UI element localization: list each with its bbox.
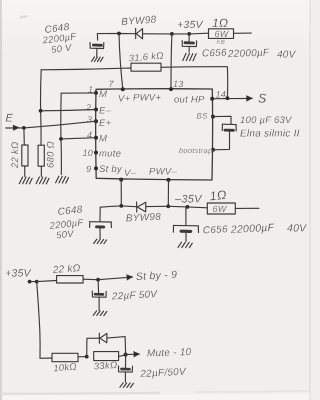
wire BS to C bootstrap [213,116,231,124]
pin 13 label [173,79,184,89]
diode D2 BYW98 (bottom) [137,202,169,212]
pin 4 number [87,130,92,140]
ground below R3 [19,177,32,184]
value C656 bottom text [203,222,308,237]
wire mute diode branch right [124,337,127,355]
svg-text:1Ω: 1Ω [212,16,228,30]
diode D3 mute (speedup) [99,333,125,343]
ground below C656 bottom [178,242,192,248]
pin PWV- dot bottom [167,178,171,182]
wire R 1ohm to supply [234,32,252,34]
svg-text:50V: 50V [56,229,76,242]
label E- pin2 [99,106,112,117]
pin 13 dot [169,87,173,91]
wire R4 to ground [40,166,42,176]
svg-text:+35V: +35V [177,19,204,31]
capacitor C656 (bottom, 22000uF 40V) [173,207,198,242]
ground below C648 bottom [94,239,107,244]
value 31.6k [128,50,164,64]
wire feedback right (R2 to output node) [161,67,228,99]
node C656 junction [187,32,191,36]
capacitor C648 (top, 2200uF 50V) [90,42,104,56]
svg-text:13: 13 [173,79,184,89]
pin 1 dot [94,91,98,95]
value BYW98 top [121,15,157,28]
label St-by pin9 [99,164,123,175]
svg-text:E: E [6,113,14,125]
capacitor C bootstrap 100uF 63V [213,124,236,150]
capacitor C stby 22uF 50V [92,280,106,311]
paper bottom edge shading [0,391,311,394]
pin 3 dot [94,119,98,123]
svg-text:M: M [99,134,107,145]
node +35V junction [170,32,174,36]
ground below R4 [36,177,49,184]
value C656 22000uF 40V top [202,48,297,61]
wire pin 1 to M vertical [61,92,96,94]
input arrow E [6,125,24,130]
junction mute node B [124,353,128,357]
label St-by - 9 [136,269,178,283]
node A junction (C648 / diode / pin7) [117,32,121,36]
pin 3 number [87,115,92,125]
wire E- vertical [40,70,43,145]
value C648 bottom text [48,204,85,241]
label M pin1 [99,89,107,100]
svg-text:33kΩ: 33kΩ [93,360,117,373]
svg-text:BS: BS [197,112,209,121]
label +35V stby [5,268,32,280]
value 1 ohm top [212,16,228,30]
svg-text:9: 9 [86,164,91,174]
wire R 1ohm bottom to supply [235,207,259,209]
svg-text:6W: 6W [213,204,228,214]
junction PWV- rail [166,204,170,208]
svg-text:10kΩ: 10kΩ [53,361,77,374]
wire mute diode branch left [87,338,99,356]
wire pin 2 to E- node [41,110,96,111]
pin 1 number [88,85,93,95]
junction output/feedback [226,96,230,100]
pin 14 dot output [210,97,214,101]
capacitor C656 (top, 22000uF 40V) [182,34,196,52]
paper right edge shading [309,0,311,400]
value 1 ohm bottom [209,188,228,204]
label bootstrap [179,146,213,155]
wire E node to pin 3 [24,121,96,128]
input label E [6,113,14,125]
svg-text:C656: C656 [203,224,229,236]
svg-text:M: M [99,89,107,100]
svg-text:22000µF: 22000µF [227,48,270,60]
wire PWV+ vertical +35V node to pin 13 [170,34,173,89]
wire R7 to mute node B [119,355,126,357]
junction stby node [96,278,100,282]
junction stby/mute branch [35,280,39,284]
arrow stby out [98,275,133,280]
label Mute - 10 [147,347,192,360]
svg-text:+35V: +35V [5,268,32,280]
svg-text:7: 7 [109,79,115,89]
pin 9 dot [94,166,98,170]
ground below M vertical [56,176,69,183]
wire -35V node to R 1ohm bottom [188,206,208,209]
pin 10 number [83,148,94,158]
resistor R2 31.6k feedback [131,63,161,71]
svg-text:3: 3 [87,115,92,125]
svg-text:S: S [258,92,267,106]
pin 7 dot [121,87,125,91]
wire C656 node to R 1ohm [189,32,208,35]
svg-text:E–: E– [99,106,112,117]
wire E node down to R3 [23,128,25,145]
pin 2 number [85,103,91,113]
wire R6 to mute node A [78,356,87,358]
wire feedback left (R2 to E- node) [41,68,131,70]
wire PWV- junction to -35V node [168,205,187,208]
svg-text:6W: 6W [215,29,230,39]
value C648 top text [41,22,78,56]
wire V+ vertical node A to pin 7 [119,34,123,90]
value 600R (rotated) [46,141,57,168]
svg-text:V–: V– [124,168,137,179]
junction -35V node [186,205,190,209]
label mute pin10 [99,149,121,160]
svg-text:22000µF: 22000µF [230,222,275,236]
pin 10 dot [94,151,98,155]
svg-text:100 µF 63V: 100 µF 63V [240,115,293,126]
paper smudge top-left [20,16,27,18]
junction mute node A [85,355,89,359]
value Elna silmic II [240,129,300,140]
wire M vertical to ground [60,93,63,174]
arrow mute out [126,352,140,357]
value 10k mute [53,361,77,374]
value 6W top [215,29,230,39]
label E+ pin3 [99,118,112,129]
resistor R7 33k mute [94,352,119,361]
capacitor C mute 22uF 50V [119,355,133,383]
op-amp U1 power amplifier IC body [96,89,213,180]
wire stby branch down to mute row [37,282,52,359]
stby rail +35V terminal [28,280,32,284]
svg-text:1Ω: 1Ω [209,188,228,204]
wire R3 to ground [24,166,26,177]
wire -35V rail [100,206,136,207]
svg-text:bootstrap: bootstrap [179,146,213,155]
label M pin4 [99,134,107,145]
value BYW98 bottom [126,212,162,225]
svg-text:KB: KB [217,39,226,46]
svg-text:E+: E+ [99,118,112,129]
svg-text:2: 2 [85,103,91,113]
pin 14 label [216,90,227,100]
wire +35V node to C656 node [172,33,189,35]
paper left edge shading [0,0,2,400]
junction E- node [39,109,43,113]
wire +35V stby to R5 [30,281,57,282]
pin 2 dot [94,108,98,112]
resistor R3 22k input [22,145,28,166]
wire C648 top to node V+ [97,34,119,41]
diode D1 BYW98 (top) [136,28,172,38]
label V- bottom [124,168,137,179]
wire pin 14 to S arrow [212,96,252,101]
junction M/pin4 [59,137,63,141]
pin BS dot [211,115,215,119]
label V+ [118,94,131,105]
svg-text:14: 14 [216,90,227,100]
resistor R5 22k stby [57,276,84,283]
value KB top [217,39,226,46]
wire pin 4 to M vertical [61,138,96,139]
svg-text:22 kΩ: 22 kΩ [10,142,21,169]
svg-text:St by - 9: St by - 9 [136,269,178,283]
resistor R4 600R feedback to gnd [38,145,44,166]
label PWV- bottom [149,167,177,178]
pin 4 dot [94,136,98,140]
label -35V [174,194,203,206]
label S output [258,92,267,106]
label out HP [174,95,205,106]
ground below C648 top [92,57,104,62]
svg-text:PWV+: PWV+ [133,93,161,104]
pin 7 label [109,79,115,89]
label BS [197,112,209,121]
svg-text:out HP: out HP [174,95,205,106]
resistor R 1ohm 6W (top) [209,29,234,39]
pin 9 number [86,164,91,174]
label PWV+ [133,93,161,104]
value 22uF 50V stby [111,289,159,302]
svg-text:Elna silmic II: Elna silmic II [240,129,300,140]
svg-text:BYW98: BYW98 [126,212,162,225]
value 22k input (rotated) [10,142,21,169]
svg-text:680 Ω: 680 Ω [46,141,57,168]
resistor R 1ohm 6W (bottom) [207,203,235,214]
ground below C stby [93,311,107,316]
wire R5 to stby node [83,278,98,281]
value 33k mute [93,360,117,373]
svg-text:40V: 40V [277,50,297,61]
capacitor C648 (bottom, 2200uF 50V) [90,207,112,239]
svg-text:C656: C656 [202,48,227,60]
value 100uF 63V [240,115,293,126]
pin V- dot bottom [119,178,123,182]
junction E input node [22,126,26,130]
ground below C mute [120,383,133,388]
svg-text:Mute - 10: Mute - 10 [147,347,192,360]
svg-text:22 kΩ: 22 kΩ [51,263,81,276]
svg-text:St by: St by [99,164,123,175]
wire pin PWV- down [167,180,169,206]
value 22uF/50V mute [139,367,187,380]
value 6W bottom [213,204,228,214]
junction V- rail [119,204,123,208]
label +35V top [177,19,204,31]
svg-text:10: 10 [83,148,94,158]
svg-text:–35V: –35V [174,194,203,206]
svg-text:PWV–: PWV– [149,167,177,178]
svg-text:V+: V+ [118,94,131,105]
ground below C656 top [183,53,196,60]
value 22k stby [51,263,81,276]
svg-text:mute: mute [99,149,121,160]
wire node A to diode D1 [119,33,135,35]
resistor R6 10k mute [52,353,78,361]
pin bootstrap dot [211,148,215,152]
svg-text:40V: 40V [287,223,307,235]
wire pin V- down [120,180,122,206]
